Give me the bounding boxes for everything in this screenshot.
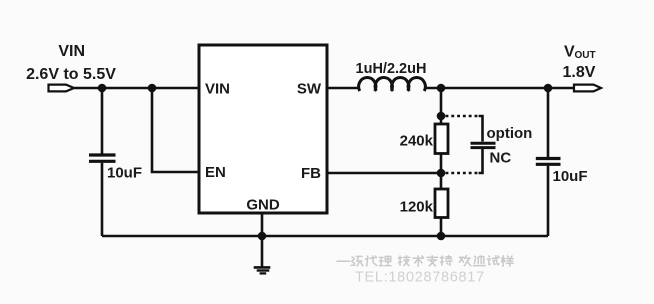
node EN junction — [148, 84, 157, 93]
pin EN — [205, 164, 226, 181]
wire dashed option top — [446, 115, 479, 118]
capacitor COUT 10uF — [536, 159, 561, 165]
wire to input capacitor — [101, 88, 104, 154]
wire SW to inductor — [327, 87, 360, 90]
svg-text:10uF: 10uF — [553, 168, 588, 185]
svg-text:1uH/2.2uH: 1uH/2.2uH — [356, 61, 427, 77]
svg-text:NC: NC — [490, 150, 512, 167]
resistor R1 240k — [435, 124, 448, 154]
resistor R2 120k — [435, 189, 448, 218]
svg-text:VIN: VIN — [205, 81, 230, 98]
wire ground rail — [102, 235, 548, 238]
svg-text:SW: SW — [297, 81, 322, 98]
node GND junction — [258, 232, 267, 241]
svg-text:TEL:18028786817: TEL:18028786817 — [355, 269, 485, 285]
pin VIN — [205, 81, 230, 98]
wire inductor to output — [424, 87, 574, 90]
svg-text:240k: 240k — [400, 133, 434, 150]
IC U1 regulator block — [199, 45, 327, 213]
capacitor option NC — [471, 116, 496, 173]
capacitor CIN 10uF — [89, 155, 116, 161]
svg-text:2.6V to 5.5V: 2.6V to 5.5V — [26, 66, 116, 83]
label NC — [490, 150, 512, 167]
label 120k — [400, 199, 434, 216]
wire FB — [327, 172, 441, 175]
wire feedback divider vertical — [440, 88, 443, 236]
svg-text:FB: FB — [301, 165, 321, 182]
wire EN feed — [152, 88, 200, 172]
svg-text:option: option — [487, 125, 533, 142]
node FB junction — [437, 169, 446, 178]
watermark TEL:18028786817 — [355, 269, 485, 285]
svg-text:120k: 120k — [400, 199, 434, 216]
inductor L1 — [359, 78, 426, 91]
ground — [254, 267, 271, 273]
svg-text:EN: EN — [205, 164, 226, 181]
label 1.8V — [563, 64, 596, 81]
pin SW — [297, 81, 322, 98]
pin FB — [301, 165, 321, 182]
label 1uH/2.2uH — [356, 61, 427, 77]
wire input to IC VIN pin — [74, 87, 200, 90]
wire IC GND to rail — [261, 213, 264, 267]
svg-text:GND: GND — [246, 197, 280, 214]
svg-text:10uF: 10uF — [107, 165, 142, 182]
node option top — [437, 112, 446, 121]
svg-text:OUT: OUT — [575, 50, 596, 61]
node output cap junction — [544, 84, 553, 93]
label 240k — [400, 133, 434, 150]
svg-text:1.8V: 1.8V — [563, 64, 596, 81]
wire output cap top — [547, 88, 550, 157]
watermark chinese text — [337, 256, 513, 267]
label 2.6V to 5.5V — [26, 66, 116, 83]
label VOUT — [564, 43, 596, 61]
svg-text:VIN: VIN — [58, 43, 85, 60]
label option — [487, 125, 533, 142]
node SW output junction — [437, 84, 446, 93]
wire output cap to rail — [547, 166, 550, 236]
svg-text:V: V — [564, 43, 575, 60]
label 10uF (output cap) — [553, 168, 588, 185]
label VIN — [58, 43, 85, 60]
output terminal arrow VOUT — [574, 85, 601, 92]
pin GND — [246, 197, 280, 214]
node ground rail FB junction — [437, 232, 446, 241]
node input cap junction — [98, 84, 107, 93]
label 10uF (input cap) — [107, 165, 142, 182]
wire dashed option bottom — [446, 172, 479, 175]
wire input cap to ground rail — [101, 163, 104, 236]
input terminal arrow VIN — [49, 85, 75, 92]
